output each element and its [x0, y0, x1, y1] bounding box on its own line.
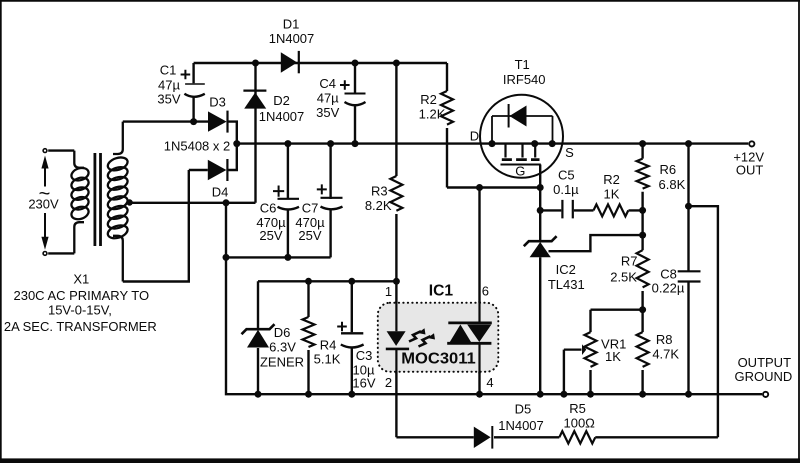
svg-text:2: 2	[385, 375, 392, 390]
diode D5	[474, 426, 493, 449]
resistor R8	[637, 332, 649, 367]
node C6 bottom junction	[284, 254, 291, 261]
node D2 top rail junction	[252, 60, 259, 67]
svg-text:R7: R7	[621, 254, 638, 269]
wire C8 tap to loop	[689, 206, 718, 437]
resistor R2 1.2K	[441, 91, 453, 125]
svg-text:6.3V: 6.3V	[269, 340, 296, 355]
capacitor C7 plus mark	[317, 184, 327, 194]
X1 terminal top	[43, 149, 47, 153]
node R4 top junction	[305, 278, 312, 285]
svg-text:G: G	[515, 164, 525, 179]
wire D6 leads	[257, 281, 259, 394]
node C8 tap junction	[685, 203, 692, 210]
wire D4 branch	[123, 144, 237, 282]
svg-text:D2: D2	[273, 93, 290, 108]
svg-text:0.22µ: 0.22µ	[652, 280, 685, 295]
svg-text:C7: C7	[302, 201, 319, 216]
wire primary terminals	[48, 151, 74, 254]
svg-text:OUTPUT: OUTPUT	[738, 355, 792, 370]
transformer X1 primary coil	[70, 151, 90, 254]
wire R3 pin1 pin2 column	[395, 63, 397, 437]
node C6 top junction	[284, 140, 291, 147]
transistor T1 body diode	[492, 104, 553, 144]
capacitor C6	[278, 199, 300, 210]
node C7 top junction	[327, 140, 334, 147]
svg-text:S: S	[565, 145, 574, 160]
wire TL431 ref	[549, 235, 643, 251]
wire D2 vertical	[254, 63, 256, 203]
svg-text:TL431: TL431	[548, 277, 585, 292]
wire R8 leads	[641, 310, 643, 395]
node D3 D4 rail junction	[233, 140, 240, 147]
wire C5 R2 branch	[540, 209, 642, 211]
svg-text:16V: 16V	[352, 376, 375, 391]
wire R4 leads	[307, 281, 309, 394]
svg-text:2A SEC. TRANSFORMER: 2A SEC. TRANSFORMER	[4, 319, 157, 334]
wire R6 leads	[641, 144, 643, 211]
resistor R7	[637, 250, 649, 287]
svg-text:230V: 230V	[28, 197, 59, 212]
wire secondary-top to D3	[123, 122, 237, 144]
svg-text:C1: C1	[160, 63, 177, 78]
wire gate column	[539, 165, 541, 395]
svg-text:47µ: 47µ	[317, 91, 339, 106]
svg-text:47µ: 47µ	[158, 78, 180, 93]
wire C4 leads	[354, 63, 356, 144]
capacitor C3	[341, 333, 364, 347]
node T1 source junction	[549, 140, 556, 147]
node TL431 cathode junction	[537, 207, 544, 214]
wire top rail	[194, 62, 447, 64]
svg-text:R2: R2	[420, 92, 437, 107]
svg-text:IC1: IC1	[429, 283, 453, 300]
capacitor C8	[678, 271, 701, 281]
node R3 top rail junction	[393, 60, 400, 67]
transistor T1 channel	[501, 144, 541, 165]
svg-text:R3: R3	[371, 184, 388, 199]
svg-text:C8: C8	[660, 266, 677, 281]
svg-text:0.1µ: 0.1µ	[553, 182, 579, 197]
capacitor C4 plus mark	[340, 80, 350, 90]
IC1 pin leads inside box	[396, 301, 479, 374]
capacitor C1 plus mark	[181, 70, 191, 80]
terminal +12V	[749, 141, 754, 146]
diode D3	[208, 111, 228, 133]
node R4 ground junction	[305, 391, 312, 398]
node TL431 ground junction	[537, 391, 544, 398]
node VR1 ground junction	[587, 391, 594, 398]
svg-text:1.2K: 1.2K	[419, 107, 446, 122]
wire C6 leads	[287, 144, 289, 258]
node C8 ground junction	[685, 391, 692, 398]
wire R7 leads	[641, 210, 643, 309]
wire C6C7 bottom bus	[226, 256, 331, 258]
node T1 channel junction	[531, 140, 538, 147]
svg-text:2.5K: 2.5K	[610, 270, 637, 285]
230V arrow	[41, 156, 48, 250]
wire main rail	[237, 142, 748, 144]
zener D6	[242, 324, 275, 347]
node C4 bottom junction	[352, 140, 359, 147]
wire top rail right drop to R2	[447, 63, 540, 188]
svg-text:35V: 35V	[316, 105, 339, 120]
capacitor C5	[562, 200, 572, 219]
svg-text:100Ω: 100Ω	[563, 416, 595, 431]
resistor R5 horizontal	[559, 431, 595, 443]
node C6 C7 bus left junction	[223, 254, 230, 261]
svg-text:D3: D3	[209, 95, 226, 110]
wire C8 leads	[687, 144, 689, 395]
node center tap	[126, 199, 132, 205]
node T1 drain junction	[489, 140, 496, 147]
svg-text:15V-0-15V,: 15V-0-15V,	[48, 303, 112, 318]
svg-text:4: 4	[486, 375, 493, 390]
capacitor C6 plus mark	[273, 186, 284, 197]
svg-text:IRF540: IRF540	[503, 72, 546, 87]
svg-text:GROUND: GROUND	[735, 369, 793, 384]
node C3 top junction	[348, 278, 355, 285]
capacitor C1	[184, 84, 204, 97]
svg-text:C3: C3	[356, 348, 373, 363]
svg-text:R2: R2	[603, 172, 620, 187]
svg-text:R8: R8	[656, 332, 673, 347]
svg-text:D1: D1	[283, 17, 300, 32]
svg-text:1K: 1K	[605, 349, 621, 364]
capacitor C4	[345, 94, 366, 106]
transistor T1 outline	[480, 95, 563, 178]
node D6 ground junction	[255, 391, 262, 398]
node R6 bottom junction	[639, 207, 646, 214]
node IC1 pin4 ground junction	[476, 391, 483, 398]
svg-text:X1: X1	[73, 272, 89, 287]
capacitor C7	[321, 198, 343, 210]
node IC1 pin1 junction	[393, 278, 400, 285]
svg-text:1N4007: 1N4007	[269, 31, 315, 46]
svg-text:1: 1	[385, 284, 392, 299]
wire ground rail	[226, 203, 762, 394]
svg-text:IC2: IC2	[556, 262, 576, 277]
svg-text:T1: T1	[515, 57, 530, 72]
MOC3011 IC1 box	[378, 303, 499, 372]
svg-text:5.1K: 5.1K	[314, 352, 341, 367]
diode D2	[243, 91, 266, 109]
node gate wire pin6 junction	[476, 184, 483, 191]
node gate wire junction	[537, 184, 544, 191]
wire C1 leads	[192, 63, 194, 122]
svg-text:ZENER: ZENER	[260, 355, 304, 370]
svg-text:D6: D6	[274, 325, 291, 340]
svg-text:MOC3011: MOC3011	[401, 351, 476, 368]
wire VR1 leads	[591, 310, 643, 395]
diode D1	[281, 51, 299, 73]
svg-text:R4: R4	[320, 338, 337, 353]
svg-text:D: D	[470, 129, 479, 144]
svg-text:C4: C4	[319, 76, 336, 91]
resistor R4	[303, 317, 315, 347]
svg-text:6.8K: 6.8K	[659, 177, 686, 192]
wire pin6 pin4 column	[478, 188, 480, 395]
resistor R6	[637, 159, 649, 189]
svg-text:1K: 1K	[604, 186, 620, 201]
svg-text:25V: 25V	[259, 228, 282, 243]
node center tap branch junction	[223, 199, 230, 206]
svg-text:D5: D5	[515, 402, 532, 417]
terminal output ground	[763, 392, 768, 397]
resistor R3	[390, 176, 402, 211]
transformer X1 secondary coil	[106, 122, 129, 282]
svg-text:C6: C6	[260, 201, 277, 216]
node R6 top junction	[639, 140, 646, 147]
node TL431 ref junction	[639, 232, 646, 239]
svg-text:R6: R6	[659, 162, 676, 177]
svg-text:1N4007: 1N4007	[498, 418, 544, 433]
wire center tap	[130, 202, 256, 204]
svg-text:C5: C5	[558, 168, 575, 183]
capacitor C3 plus mark	[337, 322, 347, 332]
IC1 led	[386, 331, 409, 349]
svg-text:35V: 35V	[157, 92, 180, 107]
IC1 light arrows	[409, 328, 435, 346]
svg-text:R5: R5	[569, 401, 586, 416]
node C8 top junction	[685, 140, 692, 147]
svg-text:4.7K: 4.7K	[652, 346, 679, 361]
X1 terminal bottom	[43, 252, 47, 256]
svg-text:6: 6	[482, 284, 489, 299]
potentiometer VR1	[564, 332, 597, 367]
resistor R2 1K horizontal	[594, 204, 629, 216]
diode D4	[208, 159, 228, 181]
svg-text:1N5408 x 2: 1N5408 x 2	[164, 139, 231, 154]
IC1 triac	[447, 323, 492, 343]
transformer X1 core	[95, 153, 101, 246]
wire VR1 wiper drop	[563, 350, 565, 395]
TL431 IC2	[524, 236, 557, 257]
svg-text:OUT: OUT	[736, 163, 764, 178]
wire zener bus y281	[258, 280, 396, 282]
wire bottom loop	[396, 436, 718, 438]
svg-text:230C AC PRIMARY TO: 230C AC PRIMARY TO	[13, 288, 149, 303]
wire C3 leads	[351, 281, 353, 394]
node C4 top rail junction	[352, 60, 359, 67]
svg-text:8.2K: 8.2K	[365, 198, 392, 213]
node C1 bottom junction	[190, 118, 197, 125]
node VR1 wiper ground junction	[560, 391, 567, 398]
svg-text:1N4007: 1N4007	[259, 109, 305, 124]
wire C7 leads	[329, 144, 331, 258]
svg-text:25V: 25V	[298, 228, 321, 243]
node R8 ground junction	[639, 391, 646, 398]
svg-text:D4: D4	[212, 185, 229, 200]
node C3 ground junction	[348, 391, 355, 398]
node R7 R8 junction	[639, 306, 646, 313]
